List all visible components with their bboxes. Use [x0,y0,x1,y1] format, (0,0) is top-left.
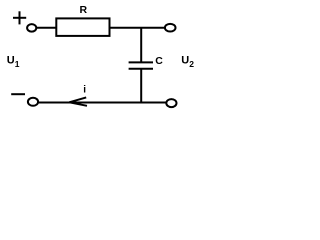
current arrow i (pointing left) [69,97,87,105]
terminal T4 bottom-right open circle [166,99,176,107]
capacitor C1 top plate [129,61,153,63]
svg-text:i: i [83,85,86,96]
terminal T1 top-left open circle [27,24,36,32]
bottom rail wire [38,102,166,104]
resistor R1 body [56,18,109,36]
terminal T2 top-right open circle [165,24,176,32]
node A junction wire down to capacitor [140,28,142,63]
wire from T1 to resistor [37,27,57,29]
plus sign (+) top-left polarity mark [13,11,26,24]
wire from capacitor to bottom rail [140,69,142,103]
svg-text:R: R [80,4,88,16]
terminal T3 bottom-left open circle [28,98,38,106]
minus sign (-) bottom-left polarity mark [11,93,25,95]
capacitor C1 bottom plate [129,68,153,70]
wire from resistor to node A [110,27,167,29]
svg-text:C: C [155,55,163,67]
